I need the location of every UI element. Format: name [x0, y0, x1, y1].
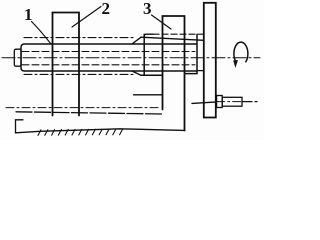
drive cylinder body	[222, 97, 242, 106]
svg-text:2: 2	[102, 0, 111, 18]
ground hatching	[38, 129, 123, 135]
svg-text:3: 3	[143, 0, 152, 18]
rotation arrow arc	[234, 42, 248, 62]
enlarged section	[141, 34, 197, 75]
taper to enlarged section	[132, 37, 141, 75]
base top line	[16, 112, 163, 114]
base phantom centerline	[6, 107, 161, 109]
drive cylinder collar	[217, 96, 223, 108]
phantom line lower	[24, 73, 133, 75]
hidden bore line of right section	[153, 33, 204, 35]
main axis centerline	[2, 57, 260, 59]
bore hidden line bottom	[22, 64, 195, 66]
ground line	[16, 129, 185, 133]
bar to faceplate lower line	[197, 70, 204, 72]
bracket line	[134, 94, 163, 96]
lower drive shaft centerline	[192, 102, 217, 104]
support stand 2	[53, 13, 80, 116]
rotation arrowhead	[233, 60, 238, 68]
base left edge	[16, 120, 24, 133]
leader line 2	[72, 7, 101, 28]
leader line 3	[152, 15, 172, 29]
bore hidden line top	[22, 51, 195, 53]
tube left end cap	[14, 49, 21, 66]
leader line 1	[32, 22, 52, 45]
support stand 3	[163, 16, 185, 131]
workpiece tube outline	[21, 44, 197, 71]
bar to faceplate upper line	[141, 37, 204, 40]
right section top-left corner	[144, 34, 153, 36]
faceplate	[204, 3, 216, 118]
phantom line upper	[24, 37, 133, 39]
